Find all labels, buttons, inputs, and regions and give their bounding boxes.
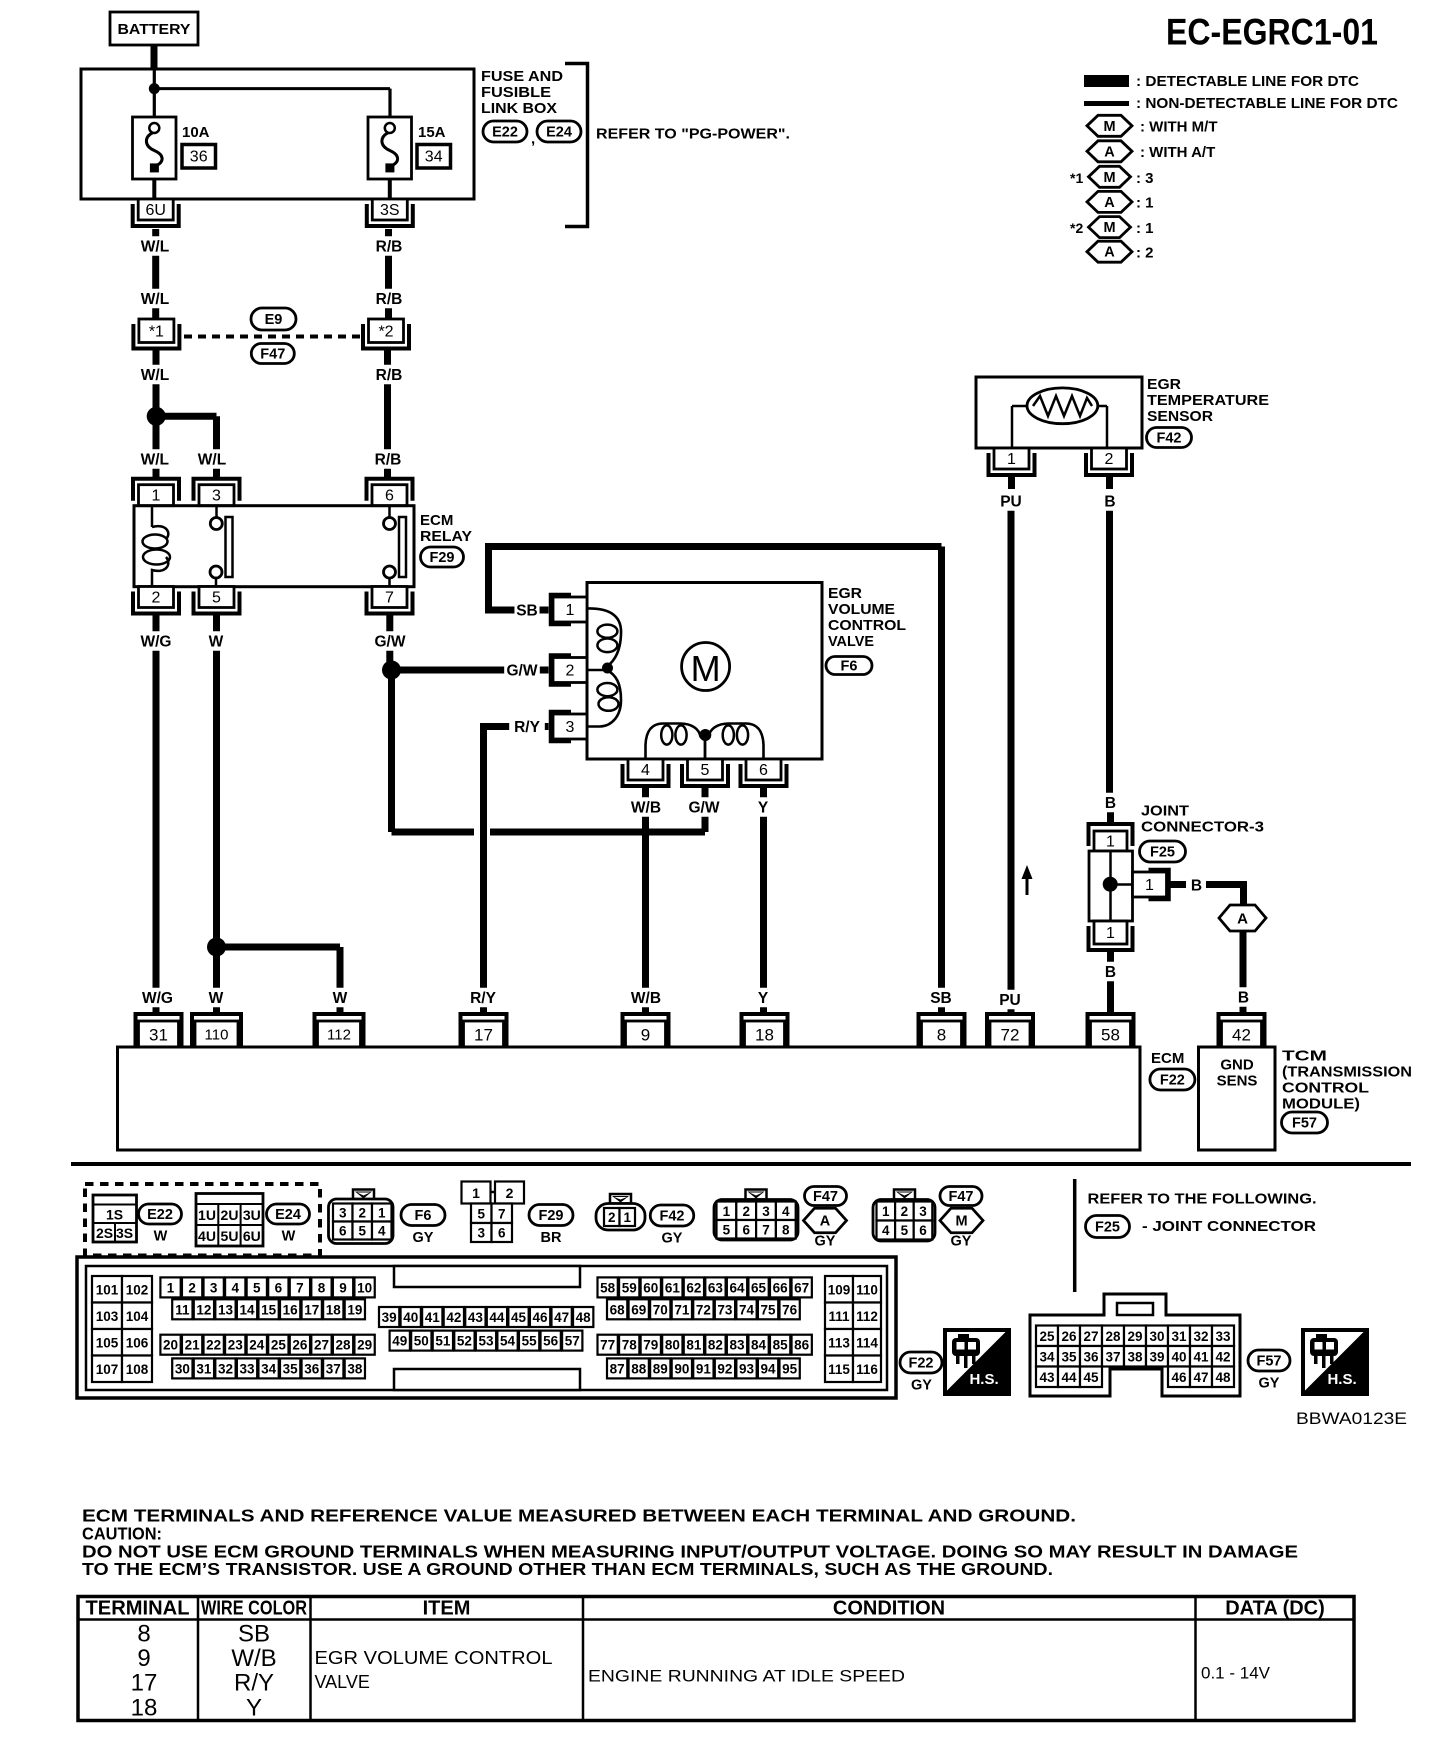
svg-text:25: 25 bbox=[1039, 1329, 1055, 1344]
label Y bbox=[756, 988, 771, 1008]
svg-text:10A: 10A bbox=[182, 124, 210, 141]
node W junction bbox=[207, 938, 226, 957]
svg-text:108: 108 bbox=[126, 1362, 149, 1377]
svg-text:28: 28 bbox=[336, 1338, 352, 1353]
svg-text:5: 5 bbox=[477, 1206, 485, 1221]
svg-text:VALVE: VALVE bbox=[315, 1672, 370, 1692]
pin 1 joint connector bottom bbox=[1089, 921, 1133, 950]
svg-text:106: 106 bbox=[126, 1335, 149, 1350]
HS view logo ECM bbox=[945, 1330, 1009, 1394]
legend non-detectable line symbol bbox=[1084, 101, 1129, 106]
svg-text:31: 31 bbox=[149, 1026, 168, 1045]
svg-text:29: 29 bbox=[1127, 1329, 1142, 1344]
svg-text:B: B bbox=[1238, 990, 1249, 1007]
svg-text:18: 18 bbox=[755, 1026, 774, 1045]
svg-text:1: 1 bbox=[1106, 834, 1115, 851]
valve coil lower bbox=[587, 670, 621, 727]
svg-text:2: 2 bbox=[566, 663, 575, 680]
svg-text:R/B: R/B bbox=[376, 239, 403, 256]
connector ref E9 bbox=[251, 308, 296, 330]
svg-text:103: 103 bbox=[96, 1309, 119, 1324]
title EC-EGRC1-01 bbox=[1166, 12, 1378, 53]
svg-text:39: 39 bbox=[382, 1310, 397, 1325]
legend hexagon A with A/T bbox=[1087, 141, 1215, 162]
svg-text:F29: F29 bbox=[539, 1208, 564, 1224]
svg-text:69: 69 bbox=[631, 1302, 646, 1317]
svg-text:ECM: ECM bbox=[1151, 1050, 1184, 1067]
fuse 10A number 36 bbox=[182, 145, 216, 169]
connector ref F57 bottom bbox=[1248, 1350, 1290, 1392]
label GY F47A bbox=[815, 1234, 836, 1250]
svg-text:W/B: W/B bbox=[631, 800, 661, 817]
wire B sensor pin2 down bbox=[1110, 477, 1111, 822]
svg-text:ITEM: ITEM bbox=[423, 1598, 471, 1620]
svg-text:BATTERY: BATTERY bbox=[118, 21, 191, 38]
svg-text:H.S.: H.S. bbox=[1327, 1371, 1356, 1388]
svg-text:30: 30 bbox=[1149, 1329, 1164, 1344]
svg-text:39: 39 bbox=[1149, 1349, 1164, 1364]
svg-text:47: 47 bbox=[1193, 1370, 1208, 1385]
svg-text:ECM: ECM bbox=[420, 512, 453, 529]
label R/Y bbox=[509, 717, 545, 737]
svg-text:101: 101 bbox=[96, 1282, 119, 1297]
label PU bbox=[998, 491, 1023, 511]
connector face F42 bbox=[596, 1194, 645, 1230]
wire W branch to ECM 112 bbox=[217, 947, 341, 1012]
table terminal values bbox=[131, 1621, 158, 1722]
wire G/W junction down to valve pin 5 bbox=[392, 670, 706, 832]
fuse 10A value label bbox=[182, 124, 210, 141]
svg-text:Y: Y bbox=[246, 1695, 262, 1722]
svg-text:PU: PU bbox=[1000, 494, 1022, 511]
svg-text:: 2: : 2 bbox=[1136, 245, 1154, 262]
svg-text:W/B: W/B bbox=[231, 1645, 276, 1672]
svg-text:6: 6 bbox=[759, 762, 768, 779]
svg-text:Y: Y bbox=[758, 990, 769, 1007]
svg-text:6U: 6U bbox=[243, 1228, 261, 1244]
svg-text:FUSE AND: FUSE AND bbox=[481, 68, 563, 85]
connector ref F6 bottom bbox=[401, 1205, 445, 1247]
svg-text:GY: GY bbox=[815, 1234, 836, 1250]
svg-text:R/Y: R/Y bbox=[234, 1670, 274, 1697]
joint connector-3 body bbox=[1089, 851, 1133, 921]
svg-text:111: 111 bbox=[828, 1309, 850, 1324]
svg-text:F42: F42 bbox=[660, 1209, 685, 1225]
svg-text:36: 36 bbox=[190, 149, 208, 166]
valve coil upper bbox=[587, 608, 621, 666]
svg-text:41: 41 bbox=[425, 1310, 441, 1325]
svg-text:W/L: W/L bbox=[198, 452, 226, 469]
relay contact right bbox=[384, 506, 407, 587]
svg-text:26: 26 bbox=[1061, 1329, 1077, 1344]
svg-text:G/W: G/W bbox=[375, 634, 406, 651]
svg-text:F57: F57 bbox=[1257, 1354, 1282, 1370]
svg-text:17: 17 bbox=[474, 1026, 493, 1045]
svg-text:B: B bbox=[1105, 964, 1116, 981]
svg-text:E24: E24 bbox=[275, 1207, 301, 1223]
svg-text:30: 30 bbox=[175, 1361, 190, 1376]
svg-text:89: 89 bbox=[653, 1361, 668, 1376]
svg-text:W: W bbox=[154, 1229, 168, 1245]
label R/B bbox=[370, 449, 406, 469]
svg-text:27: 27 bbox=[1083, 1329, 1098, 1344]
svg-text:WIRE COLOR: WIRE COLOR bbox=[201, 1598, 307, 1620]
connector ref F57 bbox=[1282, 1112, 1328, 1133]
svg-text:7: 7 bbox=[296, 1280, 304, 1295]
svg-text:F22: F22 bbox=[1160, 1073, 1185, 1089]
svg-text:TEMPERATURE: TEMPERATURE bbox=[1147, 392, 1269, 409]
svg-text:F47: F47 bbox=[949, 1189, 974, 1205]
connector ref F29 bottom bbox=[529, 1205, 573, 1247]
svg-text:8: 8 bbox=[937, 1026, 946, 1045]
svg-text:4: 4 bbox=[641, 762, 650, 779]
svg-text:44: 44 bbox=[1061, 1370, 1077, 1385]
label W/L bbox=[137, 289, 173, 309]
pin 1 relay bbox=[133, 479, 179, 506]
svg-text:*1: *1 bbox=[149, 323, 164, 340]
svg-text:18: 18 bbox=[326, 1302, 342, 1317]
legend *2 marker bbox=[1070, 220, 1083, 236]
svg-text:SB: SB bbox=[930, 990, 952, 1007]
pin 6 relay bbox=[367, 479, 413, 506]
wire G/W relay pin7 down bbox=[386, 616, 393, 671]
svg-text:4: 4 bbox=[882, 1223, 890, 1238]
svg-text:F47: F47 bbox=[813, 1189, 838, 1205]
svg-text:55: 55 bbox=[522, 1334, 538, 1349]
svg-text:17: 17 bbox=[131, 1670, 158, 1697]
wire B hexagon to TCM 42 bbox=[1240, 931, 1247, 1012]
svg-text:33: 33 bbox=[1215, 1329, 1231, 1344]
svg-text:25: 25 bbox=[271, 1338, 287, 1353]
battery bbox=[110, 12, 198, 45]
svg-text:GY: GY bbox=[951, 1234, 972, 1250]
connector ref F42 bottom bbox=[650, 1205, 694, 1247]
svg-text:M: M bbox=[1103, 220, 1115, 236]
svg-text:81: 81 bbox=[686, 1338, 702, 1353]
svg-text:6: 6 bbox=[498, 1226, 506, 1241]
svg-text:31: 31 bbox=[196, 1361, 212, 1376]
svg-text:26: 26 bbox=[292, 1338, 308, 1353]
svg-text:86: 86 bbox=[794, 1338, 810, 1353]
refer to PG-POWER text bbox=[596, 126, 790, 143]
relay F29 box bbox=[134, 506, 414, 587]
connector *2 bbox=[363, 319, 409, 349]
svg-text:1: 1 bbox=[472, 1185, 480, 1201]
legend detectable text bbox=[1136, 73, 1359, 90]
svg-text:DATA (DC): DATA (DC) bbox=[1225, 1598, 1325, 1620]
svg-text:2: 2 bbox=[608, 1210, 616, 1225]
svg-text:9: 9 bbox=[339, 1280, 347, 1295]
wire dashed harness link E9/F47 bbox=[184, 335, 363, 339]
fuse box bracket bbox=[565, 64, 588, 227]
svg-text:H.S.: H.S. bbox=[969, 1371, 998, 1388]
legend detectable line symbol bbox=[1084, 75, 1129, 87]
fuse 10A bbox=[133, 117, 177, 179]
svg-text:F25: F25 bbox=[1095, 1220, 1120, 1236]
svg-text:34: 34 bbox=[1039, 1349, 1055, 1364]
svg-text:29: 29 bbox=[357, 1338, 372, 1353]
sensor internal wires bbox=[1012, 406, 1107, 448]
svg-text:38: 38 bbox=[1127, 1349, 1143, 1364]
svg-text:W/B: W/B bbox=[631, 990, 661, 1007]
egr temperature sensor box bbox=[976, 377, 1142, 448]
svg-text:5: 5 bbox=[253, 1280, 261, 1295]
sensor name text bbox=[1147, 376, 1269, 425]
connector *1 bbox=[133, 319, 179, 349]
svg-text:24: 24 bbox=[249, 1338, 265, 1353]
caution heading bbox=[82, 1524, 162, 1544]
connector ref F47 A bbox=[805, 1187, 847, 1206]
legend hexagon M *1 bbox=[1089, 166, 1154, 187]
svg-text:W: W bbox=[209, 990, 224, 1007]
svg-text:E24: E24 bbox=[546, 125, 572, 141]
comma separator bbox=[531, 131, 535, 148]
wire W/L 6U to *1 bbox=[152, 229, 159, 319]
svg-text:37: 37 bbox=[1105, 1349, 1120, 1364]
svg-text:W/L: W/L bbox=[141, 452, 169, 469]
svg-text:GND: GND bbox=[1220, 1057, 1254, 1074]
svg-text:35: 35 bbox=[1061, 1349, 1077, 1364]
svg-text:37: 37 bbox=[326, 1361, 341, 1376]
svg-text:: NON-DETECTABLE LINE FOR DTC: : NON-DETECTABLE LINE FOR DTC bbox=[1136, 95, 1398, 112]
svg-text:3S: 3S bbox=[380, 202, 400, 219]
svg-text:1: 1 bbox=[566, 602, 575, 619]
svg-text:5: 5 bbox=[212, 590, 221, 607]
svg-text:46: 46 bbox=[1171, 1370, 1187, 1385]
svg-text:19: 19 bbox=[347, 1302, 362, 1317]
section separator line bbox=[71, 1162, 1411, 1166]
ECM connector pin grid bbox=[77, 1257, 896, 1398]
pin 58 ECM bbox=[1088, 1014, 1134, 1047]
svg-text:115: 115 bbox=[828, 1362, 850, 1377]
svg-text:54: 54 bbox=[500, 1334, 516, 1349]
svg-text:2: 2 bbox=[1105, 451, 1114, 468]
svg-text:71: 71 bbox=[674, 1302, 690, 1317]
svg-text:31: 31 bbox=[1171, 1329, 1187, 1344]
svg-text:27: 27 bbox=[314, 1338, 329, 1353]
connector ref F6 bbox=[826, 657, 872, 675]
svg-text:46: 46 bbox=[533, 1310, 549, 1325]
svg-text:3: 3 bbox=[762, 1204, 770, 1219]
svg-text:W: W bbox=[282, 1229, 296, 1245]
svg-text:: 1: : 1 bbox=[1136, 195, 1154, 212]
svg-text:BR: BR bbox=[541, 1230, 562, 1246]
label R/B bbox=[371, 236, 407, 256]
label B bbox=[1103, 793, 1118, 813]
svg-text:GY: GY bbox=[413, 1230, 434, 1246]
relay name text bbox=[420, 512, 472, 545]
svg-text:A: A bbox=[1237, 911, 1248, 928]
reference value table frame bbox=[78, 1597, 1354, 1721]
relay coil bbox=[143, 506, 171, 586]
signal direction arrow bbox=[1022, 865, 1033, 895]
svg-text:F29: F29 bbox=[430, 550, 455, 566]
svg-text:R/Y: R/Y bbox=[470, 990, 497, 1007]
pin 9 ECM bbox=[623, 1014, 669, 1047]
legend hexagon A 1 bbox=[1087, 191, 1154, 212]
caution line 2 bbox=[82, 1559, 1053, 1579]
label W/L bbox=[137, 365, 173, 385]
wire W/B valve pin4 to ECM 9 bbox=[642, 788, 649, 1012]
svg-text:77: 77 bbox=[600, 1338, 615, 1353]
svg-text:EGR VOLUME CONTROL: EGR VOLUME CONTROL bbox=[315, 1648, 553, 1668]
legend hexagon M *2 bbox=[1089, 217, 1154, 238]
svg-text:W: W bbox=[209, 634, 224, 651]
svg-text:W/L: W/L bbox=[141, 291, 169, 308]
hexagon A symbol bbox=[804, 1208, 847, 1233]
svg-text:M: M bbox=[1103, 170, 1115, 186]
fuse box note text bbox=[481, 68, 563, 117]
svg-text:0.1 - 14V: 0.1 - 14V bbox=[1201, 1664, 1271, 1683]
svg-text:GY: GY bbox=[1259, 1376, 1280, 1392]
node valve stepper tap bbox=[699, 729, 711, 741]
svg-text:: 3: : 3 bbox=[1136, 170, 1154, 187]
svg-text:B: B bbox=[1191, 878, 1202, 895]
svg-text:: WITH M/T: : WITH M/T bbox=[1140, 118, 1217, 135]
pin 31 ECM bbox=[136, 1014, 182, 1047]
pin 1 sensor bbox=[989, 448, 1035, 475]
svg-text:TERMINAL: TERMINAL bbox=[86, 1598, 190, 1620]
svg-text:REFER TO THE FOLLOWING.: REFER TO THE FOLLOWING. bbox=[1088, 1191, 1317, 1208]
svg-text:REFER TO "PG-POWER".: REFER TO "PG-POWER". bbox=[596, 126, 790, 143]
svg-text:32: 32 bbox=[218, 1361, 233, 1376]
label B bbox=[1103, 962, 1118, 982]
svg-text:109: 109 bbox=[828, 1282, 851, 1297]
table wire color values bbox=[231, 1621, 276, 1722]
label W bbox=[209, 988, 224, 1008]
svg-text:R/B: R/B bbox=[376, 367, 403, 384]
pin 3 relay bbox=[194, 479, 240, 506]
connector ref F42 bbox=[1147, 428, 1192, 448]
svg-text:2S: 2S bbox=[96, 1225, 113, 1241]
svg-text:M: M bbox=[691, 648, 721, 689]
svg-text:15A: 15A bbox=[418, 124, 446, 141]
svg-text:65: 65 bbox=[751, 1280, 767, 1295]
svg-text:44: 44 bbox=[489, 1310, 505, 1325]
connector ref E22 bottom bbox=[139, 1204, 182, 1245]
connector ref E22 bbox=[483, 121, 527, 142]
svg-text:18: 18 bbox=[131, 1695, 158, 1722]
svg-text:M: M bbox=[955, 1214, 967, 1230]
figure number BBWA0123E bbox=[1296, 1409, 1407, 1428]
wire W/G relay pin2 to ECM 31 bbox=[153, 616, 160, 1013]
wire W relay pin5 to ECM 110 bbox=[213, 616, 220, 1013]
svg-text:A: A bbox=[820, 1214, 831, 1230]
label W/G bbox=[138, 631, 174, 651]
pin 8 ECM bbox=[919, 1014, 965, 1047]
svg-text:95: 95 bbox=[782, 1361, 798, 1376]
svg-text:VOLUME: VOLUME bbox=[828, 601, 895, 618]
svg-text:F22: F22 bbox=[909, 1356, 934, 1372]
svg-text:9: 9 bbox=[137, 1645, 150, 1672]
svg-text:W: W bbox=[333, 990, 348, 1007]
svg-text:58: 58 bbox=[600, 1280, 616, 1295]
svg-text:1S: 1S bbox=[106, 1207, 123, 1223]
svg-text:84: 84 bbox=[751, 1338, 767, 1353]
svg-text:91: 91 bbox=[696, 1361, 712, 1376]
svg-text:28: 28 bbox=[1105, 1329, 1121, 1344]
svg-text:105: 105 bbox=[96, 1335, 119, 1350]
connector ref F22 bottom bbox=[900, 1352, 942, 1394]
connector ref E24 bbox=[537, 121, 581, 142]
fuse and fusible link box bbox=[81, 69, 474, 199]
ECM terminals heading bbox=[82, 1506, 1076, 1526]
svg-text:15: 15 bbox=[261, 1302, 277, 1317]
pin 5 relay bbox=[194, 587, 240, 614]
svg-text:M: M bbox=[1103, 119, 1115, 135]
svg-text:14: 14 bbox=[240, 1302, 256, 1317]
pin 112 ECM bbox=[315, 1014, 364, 1047]
svg-text:PU: PU bbox=[999, 992, 1021, 1009]
node G/W junction bbox=[382, 661, 401, 680]
label G/W bbox=[504, 660, 540, 680]
svg-text:2: 2 bbox=[152, 590, 161, 607]
svg-text:40: 40 bbox=[1171, 1349, 1186, 1364]
wire SB valve pin1 to ECM 8 bbox=[485, 547, 942, 1013]
svg-text:A: A bbox=[1104, 245, 1115, 261]
svg-text:2: 2 bbox=[188, 1280, 196, 1295]
svg-text:A: A bbox=[1104, 195, 1115, 211]
pin 2 relay bbox=[133, 587, 179, 614]
svg-text:9: 9 bbox=[641, 1026, 650, 1045]
svg-text:1: 1 bbox=[152, 488, 161, 505]
connector ref E24 bottom bbox=[267, 1204, 310, 1245]
svg-text:TO THE ECM’S TRANSISTOR. USE A: TO THE ECM’S TRANSISTOR. USE A GROUND OT… bbox=[82, 1559, 1053, 1579]
svg-text:6: 6 bbox=[919, 1223, 927, 1238]
svg-text:3U: 3U bbox=[243, 1207, 261, 1223]
pin 2 sensor bbox=[1086, 448, 1132, 475]
legend hexagon A 2 bbox=[1087, 241, 1154, 262]
connector face F29 bbox=[462, 1182, 525, 1243]
svg-text:: 1: : 1 bbox=[1136, 220, 1154, 237]
pin 72 ECM bbox=[987, 1014, 1033, 1047]
wire fuse 10A lower lead bbox=[152, 172, 156, 199]
svg-text:1: 1 bbox=[882, 1204, 890, 1219]
svg-text:BBWA0123E: BBWA0123E bbox=[1296, 1409, 1407, 1428]
svg-text:RELAY: RELAY bbox=[420, 528, 472, 545]
pin 3S bbox=[367, 199, 413, 226]
svg-text:2: 2 bbox=[901, 1204, 909, 1219]
svg-text:G/W: G/W bbox=[507, 663, 538, 680]
svg-text:40: 40 bbox=[403, 1310, 418, 1325]
svg-text:67: 67 bbox=[794, 1280, 809, 1295]
ECM box bbox=[118, 1047, 1141, 1150]
svg-text:85: 85 bbox=[773, 1338, 789, 1353]
svg-text:35: 35 bbox=[283, 1361, 299, 1376]
legend hexagon M with M/T bbox=[1087, 115, 1217, 136]
wire W/L branch to relay pin 3 bbox=[156, 416, 216, 477]
svg-text:83: 83 bbox=[729, 1338, 745, 1353]
dashed group box E22/E24 bbox=[85, 1184, 320, 1256]
label W/B bbox=[628, 797, 664, 817]
svg-text:: DETECTABLE LINE FOR DTC: : DETECTABLE LINE FOR DTC bbox=[1136, 73, 1359, 90]
svg-text:107: 107 bbox=[96, 1362, 119, 1377]
svg-text:E22: E22 bbox=[147, 1207, 173, 1223]
pin 18 ECM bbox=[742, 1014, 788, 1047]
label W/G bbox=[140, 988, 176, 1008]
svg-text:*2: *2 bbox=[1070, 220, 1083, 236]
label B bbox=[1189, 875, 1204, 895]
svg-text:ENGINE RUNNING AT IDLE SPEED: ENGINE RUNNING AT IDLE SPEED bbox=[588, 1667, 905, 1686]
svg-text:1: 1 bbox=[167, 1280, 175, 1295]
svg-text:E22: E22 bbox=[492, 125, 518, 141]
svg-text:GY: GY bbox=[911, 1378, 932, 1394]
connector face E22 bbox=[93, 1195, 137, 1242]
svg-text:42: 42 bbox=[1215, 1349, 1230, 1364]
svg-text:38: 38 bbox=[347, 1361, 363, 1376]
label W branch bbox=[333, 988, 348, 1008]
pin 5 valve bbox=[682, 759, 728, 786]
